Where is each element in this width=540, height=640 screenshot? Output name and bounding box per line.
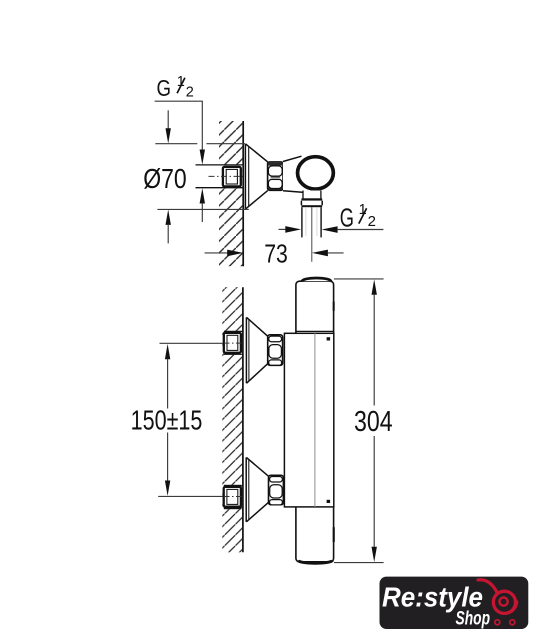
150 dimension arrow down (165, 433, 170, 496)
lower union centerline (dash-dot) (224, 496, 242, 498)
svg-text:Shop: Shop (456, 608, 491, 629)
union hex nut (top view) (268, 162, 283, 190)
G1/2 top arrow upper (down) (200, 150, 205, 165)
73 dimension left arrow (points right to wall) (205, 250, 244, 257)
G1/2 bottom arrow left (points right) (279, 226, 302, 233)
304 dimension arrow down (372, 436, 377, 562)
Ø70 arrow upper (down) (166, 110, 171, 143)
svg-text:2: 2 (368, 213, 376, 230)
lower supply stub (thick flanges) (224, 485, 242, 509)
wall-side hex nut (top view) (223, 167, 241, 187)
150 extension line upper (160, 342, 223, 344)
escutcheon cone (top view) (245, 144, 267, 209)
cart wheel left (495, 620, 500, 625)
body bottom cap arc (298, 560, 333, 563)
wall surface line (bottom view) (242, 287, 244, 552)
304 dimension arrow up (372, 279, 377, 405)
centerline of union (dash-dot) (209, 175, 245, 177)
lower wall-side hex nut (224, 487, 241, 507)
73 dimension right arrow (points left to pipe axis) (312, 250, 344, 257)
@ inner ring (500, 598, 508, 606)
tube section line top (296, 330, 334, 332)
@ tail (511, 602, 517, 612)
thermostat body main tube (296, 281, 334, 562)
Ø70 arrow lower (up) (166, 210, 171, 244)
304 extension line bottom (334, 562, 384, 564)
outlet ball (circle) (298, 157, 334, 189)
upper supply stub lines (224, 331, 242, 354)
label G1/2 (top) (157, 74, 194, 101)
Ø70 extension line top (155, 143, 245, 145)
outlet pipe (G1/2 thread) (302, 207, 321, 237)
body middle section (284, 333, 333, 507)
valve housing between nut and ball (283, 156, 305, 192)
@ outer ring (493, 591, 515, 613)
label G1/2 (bottom right) (340, 202, 376, 233)
upper union centerline (dash-dot) (224, 342, 242, 344)
lower escutcheon cone (246, 457, 268, 522)
G1/2 top arrow lower (up) (200, 188, 205, 222)
leader underline G1/2 top (155, 101, 203, 149)
cart handle swoosh (478, 580, 498, 594)
svg-text:73: 73 (264, 239, 288, 269)
lower union hex nut (body side) (269, 475, 284, 505)
150 extension line lower (158, 495, 222, 497)
svg-text:2: 2 (186, 85, 194, 101)
150 dimension arrow up (165, 344, 170, 409)
outlet collar ring 1 (301, 191, 322, 201)
upper escutcheon cone (246, 317, 267, 383)
svg-text:Ø70: Ø70 (143, 163, 187, 194)
logo box (380, 577, 529, 629)
G1/2 bottom arrow right (points left) with leader (322, 226, 384, 233)
small screw mark lower (327, 500, 331, 503)
right edge thick mark upper (333, 302, 335, 311)
upper union hex nut (body side) (268, 335, 283, 366)
right edge thick mark lower (333, 527, 335, 542)
body top cap arc (302, 278, 331, 281)
svg-text:150±15: 150±15 (131, 405, 203, 436)
svg-text:G: G (157, 75, 172, 101)
wall hatching (top view) (219, 121, 242, 266)
upper wall-side hex nut (224, 333, 241, 353)
cart wheel right (510, 620, 515, 625)
wall hatching (bottom view) (222, 287, 242, 552)
outlet pipe centerline (311, 207, 313, 262)
supply pipe behind wall (196, 165, 243, 188)
outlet collar ring 2 (301, 201, 322, 208)
304 extension line top (334, 278, 384, 280)
svg-text:304: 304 (354, 406, 393, 438)
Ø70 extension line bottom (157, 208, 248, 210)
svg-text:G: G (340, 204, 354, 232)
wall surface line (top view) (242, 121, 244, 266)
small screw mark upper (327, 337, 331, 340)
